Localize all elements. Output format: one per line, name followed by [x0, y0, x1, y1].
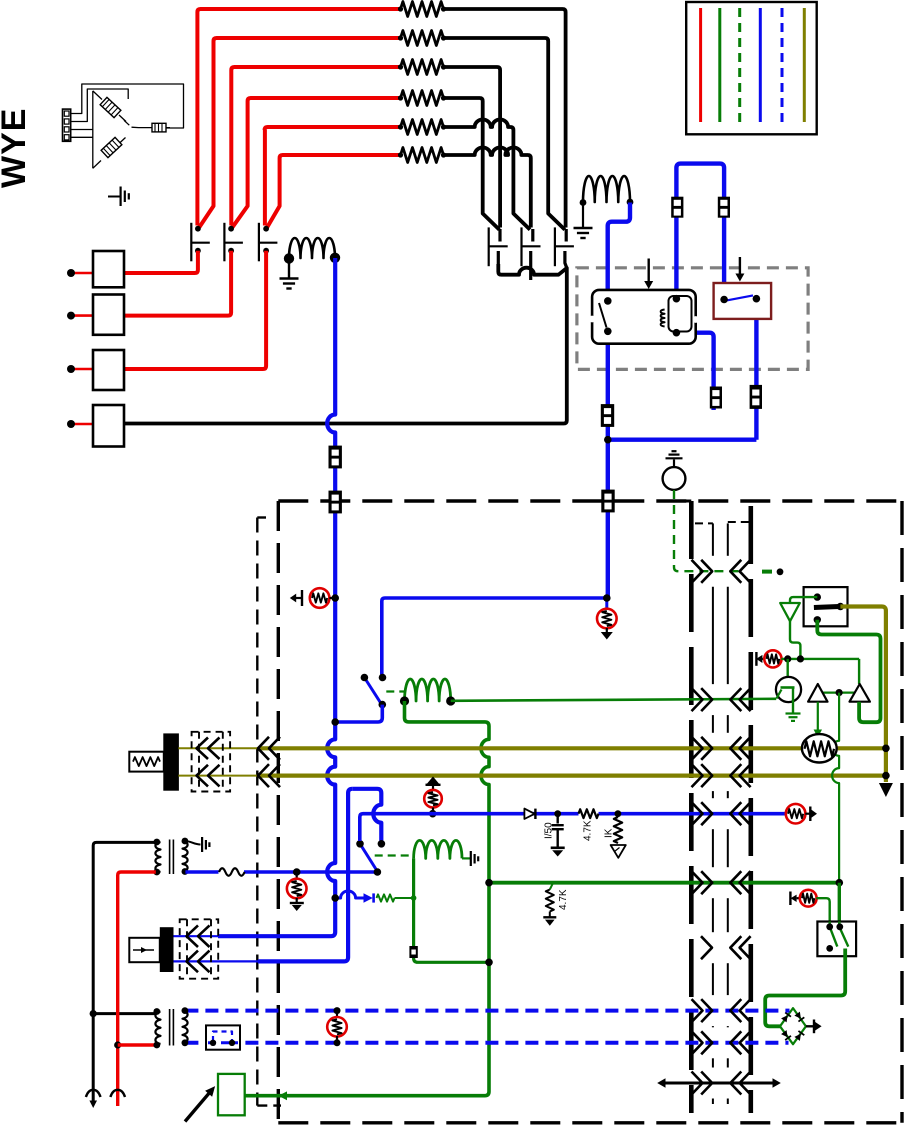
relay K2 body: [592, 290, 696, 344]
bulkhead pins blue dashed upper row: [692, 999, 703, 1022]
wire black drop row3: [498, 70, 502, 228]
wire red T1 feeder: [118, 872, 156, 1106]
transformer T1: [155, 842, 160, 872]
green ground at Q1: [786, 712, 801, 714]
wire green between amplifiers: [820, 691, 855, 693]
svg-text:WYE: WYE: [0, 108, 33, 188]
bulkhead pins green output row: [692, 871, 703, 894]
svg-text:4.7K: 4.7K: [583, 820, 594, 841]
wire blue to D1: [335, 891, 363, 898]
wire red lead to load resistor R4: [248, 98, 401, 101]
contactor K1 contact pole 3 (black side): [554, 227, 556, 266]
transformer T2: [155, 1012, 160, 1045]
connector shells P2 inner lines: [186, 919, 188, 978]
bulkhead pins olive lower row: [692, 764, 703, 787]
wire blue T1 output: [185, 870, 377, 874]
wire red contact1 to breaker CB1: [124, 251, 198, 273]
connector pins P2 upper: [187, 925, 199, 947]
resistor R9 1K: [614, 817, 622, 843]
wire black drop row5: [513, 130, 530, 230]
legend box: [686, 2, 817, 134]
connector column left rail J1: [681, 500, 691, 503]
resistor R10 4.7K to ground: [550, 883, 553, 890]
switch S5 levers: [829, 922, 831, 927]
svg-text:IK: IK: [604, 828, 615, 838]
legend olive wire: [803, 8, 806, 122]
capacitor C1 1/50: [557, 814, 559, 824]
wire red lead to load resistor R2: [214, 38, 401, 41]
wire red contact2 to breaker CB2: [124, 251, 231, 316]
connector on main feeder 2: [329, 491, 342, 514]
ground under winding coil L2: [582, 203, 584, 227]
bulkhead pins olive upper row: [692, 737, 703, 760]
relay K2 armature contact: [599, 303, 607, 328]
contact pole below-stubs black side: [497, 251, 500, 271]
heater oval HR1: [802, 734, 837, 762]
wire green output to S5: [838, 883, 841, 927]
wire green thick S4 to A2: [817, 620, 880, 722]
inset winding coil right: [152, 123, 166, 132]
wire blue link bottom: [608, 438, 757, 442]
bridge diode bottom-right: [794, 1031, 804, 1041]
wire green K3 right leg to transistor base: [451, 699, 777, 701]
wire blue dashed lower: [185, 1041, 788, 1045]
terminal arrow black feeder: [86, 1090, 101, 1097]
load resistor R4: [401, 91, 444, 106]
bridge diode top-left: [781, 1012, 791, 1022]
legend blue dashed wire: [781, 8, 784, 122]
igniter plug P2 body: [160, 928, 173, 972]
diode D2: [524, 809, 534, 819]
ground triangle under R9: [611, 845, 626, 858]
breaker box CB2: [93, 295, 124, 335]
switch S3 contacts: [726, 295, 753, 300]
sensor box B1 green: [218, 1074, 245, 1115]
switch S2: [360, 844, 377, 870]
wire green S4 to comparator triangle: [790, 597, 817, 603]
wire black drop row6: [529, 158, 533, 228]
wire red drop phase C2: [267, 158, 279, 227]
connector pins P1 lower: [197, 765, 209, 787]
wire red contact3 to breaker CB3: [124, 251, 266, 369]
comparator triangle down: [780, 603, 800, 621]
connector shells P1 inner lines: [198, 732, 200, 792]
control box S4: [804, 587, 848, 626]
terminal stud T4: [71, 423, 93, 426]
wire black T1 feeder: [93, 842, 156, 1104]
terminal stud T3: [71, 368, 93, 371]
resistor R8 4.7K inline: [579, 809, 599, 819]
contactor K1 contact pole 1 (black side): [488, 227, 490, 266]
inset connector strip: [63, 109, 71, 141]
fuse F8 circled resistor above start line: [427, 777, 440, 785]
bulkhead pins black spare row: [692, 1072, 703, 1095]
wire red drop phase B: [229, 70, 233, 226]
connector on blue jumper left: [671, 197, 683, 218]
indicator circle M1: [673, 460, 675, 468]
load resistor R5: [401, 120, 444, 135]
chassis ground at K4: [462, 857, 470, 859]
wire blue top jumper: [676, 164, 724, 300]
connector on relay output 2: [601, 490, 614, 513]
wire blue start branch: [352, 789, 381, 841]
legend green wire: [718, 8, 721, 122]
bridge output arrow: [806, 1025, 813, 1027]
bulkhead pins olive upper: [258, 737, 269, 760]
fuse F4 circled resistor end of start line: [786, 804, 806, 824]
connector on coil stub: [710, 387, 722, 409]
wire green dashed from M1: [674, 490, 744, 571]
wire red drop phase B2: [233, 101, 248, 227]
terminal arrow olive: [879, 783, 893, 797]
wire green control node line: [781, 658, 859, 660]
relay coil K4: [414, 840, 462, 858]
transistor Q1: [787, 659, 789, 688]
inset winding coil upper: [100, 97, 121, 117]
wire black spare with arrows: [665, 1082, 773, 1085]
wire green node down to relay area: [832, 693, 839, 883]
connector column inner pin lines: [695, 522, 713, 524]
bridge diode bottom-left: [781, 1030, 791, 1040]
wire red lead to load resistor R5: [265, 127, 401, 130]
terminal stud T2: [71, 314, 93, 317]
load resistor R3: [401, 60, 444, 75]
terminal stud T1: [71, 272, 93, 275]
connector shells P2: [180, 919, 219, 978]
wire green K3 left leg: [245, 701, 489, 1096]
wire black contact bus to line: [124, 264, 567, 424]
amplifier triangle A1: [808, 684, 827, 702]
wire black lead from load resistor R5: [444, 120, 514, 130]
diode D1 blue: [364, 893, 373, 903]
wire blue main feeder: [218, 258, 335, 936]
connector on main feeder 1: [329, 446, 342, 469]
wire olive lower main: [258, 773, 886, 777]
wire black drop row1: [564, 12, 568, 228]
wire green node to amp2 apex: [858, 659, 860, 684]
wire black lead from load resistor R6: [444, 147, 531, 158]
wire blue relay K2 output down: [606, 331, 610, 598]
fuse F2 circled resistor below sense line: [605, 598, 608, 609]
wire olive upper thin: [178, 747, 258, 749]
switch box S5: [817, 922, 856, 957]
inner dashed partition line: [257, 516, 266, 518]
bulkhead pins blue start row: [692, 802, 703, 825]
bulkhead pins blue dashed lower row: [692, 1031, 703, 1054]
load resistor R2: [401, 31, 444, 46]
wire black drop row2: [548, 41, 565, 230]
wire olive upper right: [836, 746, 886, 750]
wire black lead from load resistor R1: [444, 9, 566, 12]
inset winding coil lower: [101, 137, 122, 157]
fuse F7 circled resistor across dashed pair: [336, 1011, 338, 1018]
wire blue start branch thin tail: [173, 960, 258, 962]
ground under exciter coil L1: [288, 258, 290, 278]
tick connector on K4 leg: [409, 946, 417, 958]
bridge diode top-right: [794, 1011, 804, 1021]
igniter plug P2 box: [129, 938, 160, 962]
wire green triangle apex to node: [790, 621, 800, 659]
connector pins P1 upper: [197, 738, 209, 760]
terminal arrow red feeder: [110, 1090, 125, 1097]
wire blue main feeder thin tail: [173, 935, 218, 937]
switch S3 box: [714, 283, 772, 319]
wire green main control output: [489, 881, 839, 885]
wire red drop phase A: [195, 12, 199, 226]
wire red lead to load resistor R1: [197, 9, 400, 12]
load resistor R1: [401, 2, 444, 17]
breaker box CB4: [93, 405, 124, 447]
gray dashed control-box outline: [577, 268, 808, 370]
contactor K1 contact pole 1 (red side): [190, 223, 192, 261]
arrowhead on green wire to B1: [278, 1091, 287, 1100]
wire red drop phase C: [263, 130, 267, 226]
connector shells P1: [192, 732, 231, 792]
wire red lead to load resistor R3: [231, 67, 400, 70]
wire red T2 stub: [118, 1043, 156, 1046]
plug block on dashed pair: [206, 1025, 240, 1049]
pointer arrow to B1: [185, 1093, 210, 1122]
connector pins P2 lower: [187, 951, 199, 973]
mechanical link S1 to relay coil K3: [386, 690, 404, 692]
connector on S3 drop: [750, 385, 762, 409]
chassis ground at T1: [185, 841, 201, 845]
wire green F6 to S5: [816, 898, 829, 927]
wire red drop phase A2: [199, 41, 213, 227]
exciter coil L1: [289, 238, 335, 258]
connector column right rail J2: [748, 506, 753, 1113]
wire blue start line: [360, 814, 787, 841]
control box S4 lever: [814, 607, 839, 608]
legend red wire: [699, 8, 702, 122]
breaker box CB3: [93, 350, 124, 390]
svg-text:I/50: I/50: [544, 822, 555, 839]
connector on blue jumper right: [718, 197, 730, 218]
legend green dashed wire: [738, 8, 741, 122]
igniter plug P1 body: [164, 734, 179, 790]
wire red lead to load resistor R6: [280, 155, 401, 158]
adjust arrow into relay K2: [648, 259, 650, 282]
wire blue switch S3 down: [754, 299, 758, 440]
relay K2 coil: [669, 296, 692, 332]
resistor R7 green: [377, 894, 395, 901]
connector on relay output: [601, 404, 614, 427]
relay coil K3: [405, 679, 451, 701]
wire blue winding L2 to relay K2: [608, 203, 630, 301]
switch S1: [364, 678, 381, 704]
wire olive S4 output: [840, 607, 886, 783]
fuse F5 circled resistor control: [756, 655, 762, 663]
wire olive upper main: [258, 746, 803, 750]
wire olive lower thin: [178, 775, 258, 777]
inset chassis ground: [108, 196, 120, 198]
wire green S5 to bridge: [765, 949, 845, 1027]
generator winding coil L2: [583, 176, 630, 202]
load resistor R6: [401, 148, 444, 163]
contactor K1 contact pole 2 (black side): [520, 227, 522, 266]
wire black lead from load resistor R3: [444, 67, 501, 70]
wire green K4 left leg: [414, 858, 489, 962]
mechanical link S2 to relay coil K4: [375, 854, 411, 856]
bulkhead pins spare row: [701, 936, 712, 959]
igniter plug P1 resistor box: [129, 752, 164, 772]
bulkhead pins green base row: [692, 688, 703, 711]
bulkhead pins olive lower: [258, 764, 269, 787]
legend blue wire: [759, 8, 762, 122]
wire black T2 stub: [93, 1012, 156, 1015]
svg-text:4.7K: 4.7K: [558, 889, 569, 910]
adjust arrow into switch S3: [739, 257, 741, 274]
bulkhead pins green dashed row: [692, 560, 703, 583]
inset wye winding triangle: [71, 84, 184, 128]
outer dashed enclosure (generator set boundary): [277, 501, 280, 1123]
wire blue dashed upper: [185, 1009, 789, 1013]
amplifier triangle A2: [850, 684, 870, 702]
inline fuse on T1 output: [219, 866, 245, 879]
fuse F3 circled resistor on T1 output: [296, 872, 298, 879]
breaker box CB1: [93, 251, 124, 287]
wire green A1 to heater oval: [817, 702, 819, 731]
wire blue S1 return: [335, 705, 382, 722]
contactor K1 contact pole 3 (red side): [258, 223, 260, 261]
fuse F6 circled resistor at S5: [791, 895, 797, 902]
wire black drop row4: [483, 101, 500, 230]
wire blue sense line: [382, 598, 607, 675]
fuse F1 circled resistor on feeder: [296, 597, 302, 599]
bridge rectifier BR1: [780, 1008, 806, 1044]
wire black lead from load resistor R4: [444, 98, 483, 101]
wire blue relay coil stub: [676, 333, 713, 410]
contactor K1 contact pole 2 (red side): [223, 223, 225, 261]
wire black lead from load resistor R2: [444, 38, 549, 41]
